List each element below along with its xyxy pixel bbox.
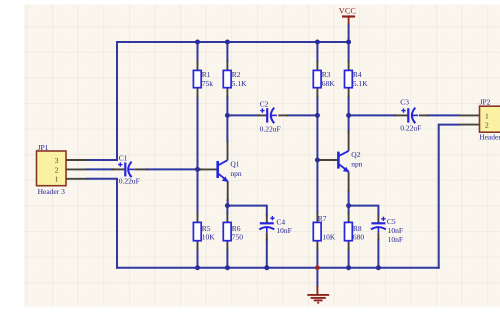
svg-text:10nF: 10nF [388, 235, 403, 244]
node rail-ground [315, 265, 320, 270]
transistor Q1 [218, 160, 242, 182]
capacitor C2 [260, 99, 281, 133]
resistor R3 [313, 70, 335, 88]
pin Q2 emitter [348, 172, 350, 192]
wire Q2 emitter to node F [348, 191, 350, 206]
wire R3 top [316, 42, 318, 61]
svg-text:JP2: JP2 [480, 98, 491, 107]
pin C3 left [394, 114, 408, 116]
wire R8 to bottom rail [348, 250, 350, 268]
resistor R5 [193, 222, 215, 241]
resistor R7 [313, 214, 336, 242]
pin C4 top [266, 214, 268, 223]
node rail-R5 [195, 265, 200, 270]
svg-text:C4: C4 [276, 217, 285, 226]
node rail-R1 [195, 40, 200, 45]
pin R6 bottom [226, 241, 228, 251]
wire R3 bottom through node C to R7 [316, 97, 318, 214]
pin C5 top [377, 214, 379, 223]
wire C2 right to node C [288, 114, 318, 116]
wire node A to Q1 base [198, 168, 202, 170]
node F [346, 203, 351, 208]
wire C2 left to Q1 collector column [227, 114, 258, 116]
svg-text:R7: R7 [318, 214, 327, 223]
pin R3 top [316, 60, 318, 70]
pin C2 left [258, 114, 267, 116]
svg-text:C1: C1 [119, 153, 128, 162]
resistor R4 [345, 70, 369, 88]
wire JP1 pin2 to C1 [87, 168, 114, 170]
wire bottom rail [117, 267, 439, 269]
svg-text:680: 680 [353, 232, 365, 241]
wire C3 right to JP2 pin1 [428, 114, 459, 116]
pin Q1 emitter [227, 181, 229, 201]
wire JP2 pin2 down right rail [439, 125, 460, 268]
pin JP2-2 [459, 124, 479, 126]
wire R4 bottom to node E [348, 97, 350, 132]
wire R1 top [197, 42, 199, 61]
pin R5 bottom [197, 241, 199, 251]
pin R6 top [226, 212, 228, 222]
node rail-C4 [264, 265, 269, 270]
node rail-C5 [376, 265, 381, 270]
power port VCC [339, 6, 357, 24]
capacitor C1 [118, 153, 140, 185]
pin C1 right [135, 168, 148, 170]
svg-text:2: 2 [485, 121, 489, 130]
pin R2 bottom [226, 88, 228, 98]
svg-text:Q2: Q2 [351, 150, 360, 159]
wire C1 to base node A [147, 168, 198, 170]
pin C3 right [419, 114, 429, 116]
svg-text:75k: 75k [202, 79, 214, 88]
svg-text:Q1: Q1 [230, 160, 239, 169]
pin R5 top [197, 212, 199, 222]
svg-text:R2: R2 [232, 70, 241, 79]
svg-text:10nF: 10nF [276, 226, 291, 235]
pin R2 top [226, 60, 228, 70]
wire node B to C4 [227, 206, 266, 216]
pin C4 bottom [266, 233, 268, 241]
connector JP2 [479, 98, 500, 142]
svg-text:Header 3: Header 3 [38, 187, 66, 196]
svg-text:C2: C2 [260, 99, 269, 108]
svg-text:1: 1 [485, 111, 489, 120]
svg-text:R3: R3 [322, 70, 331, 79]
svg-text:VCC: VCC [339, 6, 357, 15]
svg-text:R4: R4 [353, 70, 362, 79]
node A [195, 167, 200, 172]
capacitor C3 [400, 97, 421, 132]
wire node E to C3 [349, 114, 396, 116]
resistor R8 [345, 222, 365, 241]
node D Q2 base [315, 158, 320, 163]
wire R4 top (VCC stem lower) [348, 25, 350, 62]
svg-text:750: 750 [232, 232, 244, 241]
pin R3 bottom [316, 88, 318, 98]
pin C1 left [111, 168, 125, 170]
resistor R6 [223, 222, 243, 241]
capacitor C5 [371, 217, 403, 244]
pin R8 top [348, 212, 350, 222]
pin R7 top [316, 212, 318, 222]
wire Q1 emitter to node B [227, 200, 229, 205]
wire R5 to bottom rail [197, 250, 199, 268]
svg-text:Header 2: Header 2 [479, 133, 500, 142]
wire node F down to R8 [348, 206, 350, 214]
pin R8 bottom [348, 241, 350, 251]
svg-text:npn: npn [230, 169, 242, 178]
node rail-R8 [346, 265, 351, 270]
pin Q2 collector [348, 131, 350, 151]
resistor R2 [223, 70, 247, 88]
svg-text:5.1K: 5.1K [353, 79, 368, 88]
pin C5 bottom [377, 233, 379, 241]
wire node B down to R6 [226, 206, 228, 214]
svg-text:3: 3 [55, 156, 59, 165]
resistor R1 [193, 70, 213, 88]
wire VCC top rail [117, 41, 349, 43]
node rail-R6 [225, 265, 230, 270]
node rail-R3 [315, 40, 320, 45]
svg-text:0.22uF: 0.22uF [260, 125, 281, 134]
connector JP1 [37, 143, 67, 196]
wire R2 top [226, 42, 228, 61]
svg-text:10nF: 10nF [388, 226, 403, 235]
pin JP1-2 [66, 168, 87, 170]
wire node D to Q2 base [317, 159, 321, 161]
node B [225, 203, 230, 208]
pin R4 bottom [348, 88, 350, 98]
wire left rail upper (JP1 pin3 to top rail) [87, 42, 117, 160]
pin R4 top [348, 60, 350, 70]
svg-text:0.22uF: 0.22uF [400, 124, 421, 133]
svg-text:10K: 10K [322, 232, 336, 241]
pin C2 right [278, 114, 288, 116]
pin JP1-3 [66, 159, 87, 161]
svg-text:0.22uF: 0.22uF [119, 177, 140, 186]
wire R1 bottom to node A [197, 97, 199, 170]
wire left rail lower (JP1 pin1 to bottom rail) [87, 179, 117, 268]
svg-text:JP1: JP1 [38, 143, 49, 152]
pin Q1 collector [227, 140, 229, 160]
capacitor C4 [259, 216, 292, 235]
node rail-R2 [225, 40, 230, 45]
pins: dark connector/component pin segments [66, 60, 480, 250]
pin Q2 base [320, 159, 339, 161]
ground [307, 286, 329, 304]
svg-text:R1: R1 [202, 70, 211, 79]
svg-text:C3: C3 [400, 97, 409, 106]
pin R1 bottom [197, 88, 199, 98]
svg-text:68K: 68K [322, 79, 336, 88]
node rail-VCC [346, 40, 351, 45]
wire R2 bottom to Q1 collector [226, 97, 228, 141]
pin Q1 base [200, 168, 218, 170]
wire R7 to bottom rail [316, 250, 318, 268]
svg-text:2: 2 [55, 165, 59, 174]
pin R1 top [197, 60, 199, 70]
pin JP2-1 [459, 114, 479, 116]
wire ground stub [316, 268, 318, 286]
node E [346, 113, 351, 118]
wire R6 to bottom rail [226, 250, 228, 268]
wire node A down to R5 [197, 169, 199, 213]
pin JP1-1 [66, 178, 87, 180]
wire C4 bottom to rail [266, 240, 268, 268]
wire node F to C5 [349, 206, 379, 216]
svg-text:5.1K: 5.1K [232, 79, 247, 88]
svg-text:10K: 10K [202, 232, 216, 241]
node C [315, 113, 320, 118]
svg-text:1: 1 [55, 175, 59, 184]
transistor Q2 [338, 150, 362, 172]
svg-text:npn: npn [351, 160, 363, 169]
pin R7 bottom [316, 241, 318, 251]
wire C5 bottom to rail [377, 240, 379, 268]
node Q1 collector / C2 [225, 113, 230, 118]
